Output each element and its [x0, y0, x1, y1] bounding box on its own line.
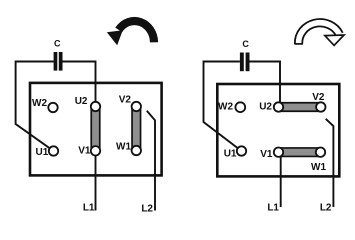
svg-text:C: C [54, 38, 61, 48]
svg-text:W2: W2 [32, 98, 47, 109]
svg-text:W1: W1 [311, 162, 326, 173]
svg-text:L2: L2 [320, 203, 332, 214]
svg-text:U1: U1 [36, 147, 49, 158]
svg-text:L1: L1 [83, 203, 95, 214]
svg-text:V2: V2 [312, 92, 325, 103]
svg-text:U2: U2 [75, 96, 88, 107]
svg-text:W2: W2 [218, 101, 233, 112]
svg-text:V2: V2 [119, 95, 132, 106]
svg-text:V1: V1 [260, 149, 273, 160]
svg-text:C: C [242, 39, 249, 49]
svg-text:L1: L1 [267, 203, 279, 214]
svg-text:U2: U2 [259, 102, 272, 113]
svg-text:U1: U1 [224, 148, 237, 159]
svg-text:V1: V1 [78, 146, 91, 157]
svg-text:W1: W1 [116, 141, 131, 152]
svg-text:L2: L2 [141, 204, 153, 215]
